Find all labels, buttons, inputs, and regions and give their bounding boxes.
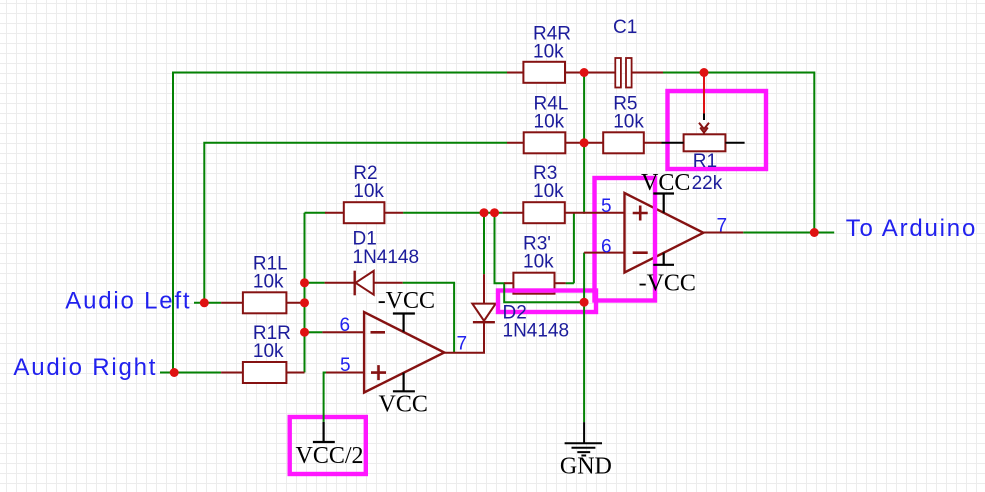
junction node B on R2 output bbox=[490, 208, 499, 217]
junction node A on R2 output bbox=[480, 208, 489, 217]
svg-text:-VCC: -VCC bbox=[639, 270, 696, 296]
lead R1L left bbox=[221, 302, 243, 304]
wire C1 to top-right corner down to output junction bbox=[663, 73, 814, 233]
op-amp U1 minus sign (pin 6) bbox=[371, 331, 386, 334]
lead R1R right bbox=[286, 372, 304, 374]
resistor R3 bbox=[523, 202, 565, 223]
lead R4R left bbox=[507, 72, 523, 74]
wire node A down to D2 anode bbox=[483, 213, 485, 274]
svg-text:5: 5 bbox=[340, 355, 351, 376]
power VCC/2 symbol bbox=[313, 422, 335, 442]
lead C1 right bbox=[632, 72, 663, 74]
diode D2 bbox=[472, 304, 495, 321]
wire R2 output to R3 bbox=[403, 212, 503, 214]
lead U1 output to D2 cathode bbox=[444, 322, 484, 353]
svg-text:GND: GND bbox=[560, 454, 612, 480]
resistor R3' bbox=[513, 273, 554, 294]
svg-text:VCC/2: VCC/2 bbox=[296, 443, 364, 469]
wire second L corner to R4L bbox=[204, 143, 507, 303]
wire D1 cathode to node bbox=[305, 282, 325, 284]
wire U2 output to To Arduino bbox=[743, 232, 834, 234]
svg-text:-VCC: -VCC bbox=[378, 288, 435, 314]
lead R4R right to C1 left bbox=[565, 72, 615, 74]
svg-text:10k: 10k bbox=[253, 271, 284, 292]
junction at D1 node bbox=[300, 278, 309, 287]
wire R4R junction down to R4L junction and to U2 pin5 row bbox=[583, 73, 585, 214]
wire node B down and over to R3' left bbox=[495, 213, 585, 303]
svg-text:7: 7 bbox=[457, 333, 468, 354]
svg-text:6: 6 bbox=[340, 315, 351, 336]
resistor R2 bbox=[344, 202, 385, 223]
power -VCC symbol below U2 bbox=[653, 253, 674, 265]
potentiometer R1 body bbox=[684, 134, 726, 151]
junction at Audio Right bbox=[170, 368, 179, 377]
svg-text:To Arduino: To Arduino bbox=[846, 215, 977, 242]
power VCC symbol above U2 bbox=[653, 194, 674, 213]
svg-text:Audio Left: Audio Left bbox=[65, 288, 191, 315]
svg-text:10k: 10k bbox=[533, 181, 564, 202]
svg-text:5: 5 bbox=[601, 196, 612, 217]
junction at R4R/C1 bbox=[580, 68, 589, 77]
svg-text:7: 7 bbox=[717, 215, 728, 236]
wire R3 right to R3' right vertical bbox=[566, 213, 574, 284]
highlight box around R1 bbox=[668, 91, 767, 169]
svg-text:1N4148: 1N4148 bbox=[503, 321, 570, 342]
junction at R1L right bbox=[300, 298, 309, 307]
junction at Audio Left bbox=[200, 298, 209, 307]
wire D1 anode down to U1 output bbox=[403, 283, 454, 353]
highlight box around VCC/2 bbox=[290, 417, 366, 474]
svg-text:1N4148: 1N4148 bbox=[353, 247, 420, 268]
lead D1 anode bbox=[374, 282, 403, 284]
lead R1 pot left (black) bbox=[662, 142, 684, 144]
lead R3' right bbox=[555, 282, 566, 284]
highlight box around op-amp U2 inputs bbox=[595, 178, 656, 301]
lead R1L right bbox=[286, 302, 304, 304]
junction at GND net bbox=[580, 298, 589, 307]
resistor R1R bbox=[243, 362, 287, 383]
svg-text:10k: 10k bbox=[353, 181, 384, 202]
svg-text:VCC: VCC bbox=[379, 392, 428, 418]
capacitor C1 bbox=[615, 58, 621, 88]
lead U1 pin6 bbox=[322, 331, 364, 333]
svg-text:10k: 10k bbox=[523, 252, 554, 273]
svg-text:10k: 10k bbox=[534, 111, 565, 132]
lead R2 left bbox=[325, 212, 344, 214]
power VCC symbol below U1 bbox=[393, 373, 415, 392]
highlight box around D2 label bbox=[498, 291, 596, 313]
wire U2 pin6 down to GND bbox=[583, 253, 585, 423]
resistor R5 bbox=[603, 132, 644, 153]
svg-text:Audio Right: Audio Right bbox=[13, 354, 157, 381]
lead R5 right bbox=[644, 142, 662, 144]
svg-text:R1: R1 bbox=[693, 151, 717, 172]
lead U2 output bbox=[703, 232, 743, 234]
lead U1 pin5 bbox=[326, 372, 364, 374]
lead R3 left bbox=[503, 212, 524, 214]
diode D1 bbox=[356, 271, 374, 295]
power -VCC symbol above U1 bbox=[393, 314, 415, 332]
op-amp U1 plus sign (pin 5) bbox=[371, 365, 386, 380]
lead R2 right bbox=[384, 212, 403, 214]
svg-text:10k: 10k bbox=[253, 341, 284, 362]
svg-text:10k: 10k bbox=[533, 41, 564, 62]
wiper red wire from top junction bbox=[703, 73, 705, 114]
wire vertical R1L-right node to R2 and down to R1R bbox=[305, 213, 326, 373]
op-amp U2 plus sign (pin 5) bbox=[633, 206, 648, 221]
lead R3' left bbox=[504, 282, 513, 284]
wire U1 pin6 bbox=[305, 331, 323, 333]
potentiometer R1 wiper arrow bbox=[699, 123, 709, 135]
lead D1 cathode bbox=[325, 282, 355, 284]
wire U1 pin5 down to VCC/2 bbox=[324, 373, 327, 422]
junction at U1 pin6 node bbox=[300, 328, 309, 337]
op-amp U2 triangle bbox=[625, 193, 704, 273]
resistor R4L bbox=[524, 132, 566, 153]
junction at R4L/R5 bbox=[580, 138, 589, 147]
svg-text:10k: 10k bbox=[613, 111, 644, 132]
svg-text:22k: 22k bbox=[692, 173, 723, 194]
wire Audio Left stub bbox=[194, 302, 221, 304]
junction at To Arduino bbox=[810, 228, 819, 237]
lead R4L right to R5 left bbox=[565, 142, 603, 144]
svg-text:6: 6 bbox=[601, 236, 612, 257]
resistor R1L bbox=[243, 292, 287, 313]
svg-text:VCC: VCC bbox=[641, 170, 690, 196]
lead R3 right to U2 pin5 bbox=[565, 212, 625, 214]
wire Audio Right stub bbox=[160, 372, 221, 374]
lead U2 pin6 bbox=[584, 252, 624, 254]
lead D2 anode up bbox=[483, 274, 485, 304]
wiper black segment bbox=[703, 113, 705, 120]
wire top row from left L corner to R4R bbox=[173, 73, 507, 373]
resistor R4R bbox=[523, 62, 565, 83]
ground GND symbol bbox=[565, 422, 602, 455]
svg-text:C1: C1 bbox=[613, 17, 637, 38]
op-amp U2 minus sign (pin 6) bbox=[633, 251, 648, 254]
lead R4L left bbox=[507, 142, 524, 144]
lead R1R left bbox=[221, 372, 243, 374]
junction at C1 out / R1 wiper bbox=[700, 68, 709, 77]
op-amp U1 triangle bbox=[364, 312, 444, 392]
lead R1 pot right (black) bbox=[725, 142, 744, 144]
